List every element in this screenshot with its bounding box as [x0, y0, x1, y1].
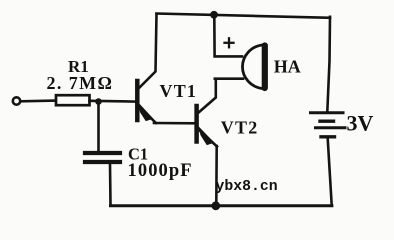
svg-text:VT1: VT1 — [160, 81, 198, 101]
right rail bottom — [328, 139, 332, 206]
wire C1 to bottom rail — [109, 164, 112, 205]
svg-text:ybx8.cn: ybx8.cn — [216, 179, 278, 195]
transistor VT2 emitter — [198, 129, 218, 147]
battery GB plates — [311, 113, 346, 137]
wire VT2 emitter to bottom rail — [215, 146, 218, 205]
transistor VT2 collector — [198, 79, 216, 113]
junction dot top — [210, 11, 218, 19]
transistor VT1 base bar — [135, 81, 140, 120]
wire R1 to VT1 base — [90, 100, 137, 103]
wire node A to C1 — [97, 103, 100, 152]
node A junction dot — [95, 98, 102, 105]
wire terminal to R1 — [21, 99, 55, 102]
transistor VT2 base bar — [194, 106, 199, 142]
right rail top — [327, 17, 330, 112]
svg-text:HA: HA — [274, 57, 301, 77]
svg-text:VT2: VT2 — [221, 118, 259, 138]
wire VT2 collector to HA — [215, 77, 243, 80]
svg-text:3V: 3V — [347, 111, 374, 136]
buzzer HA flat bar — [262, 46, 268, 89]
VT2 emitter arrow — [199, 128, 214, 145]
buzzer HA dome — [242, 45, 262, 89]
input terminal — [13, 97, 20, 104]
svg-text:2. 7MΩ: 2. 7MΩ — [47, 73, 114, 93]
top rail — [157, 14, 331, 18]
wire VT1 emitter to VT2 base — [154, 122, 196, 125]
svg-text:1000pF: 1000pF — [128, 161, 193, 181]
plus sign — [225, 38, 234, 47]
wire top rail to HA plus lead — [214, 15, 242, 57]
resistor R1 — [56, 95, 90, 105]
transistor VT1 collector — [139, 14, 157, 89]
junction dot bottom — [211, 201, 220, 210]
bottom rail — [111, 204, 332, 207]
transistor VT1 emitter — [138, 106, 156, 124]
capacitor C1 — [85, 153, 120, 162]
VT1 emitter arrow — [139, 104, 153, 121]
